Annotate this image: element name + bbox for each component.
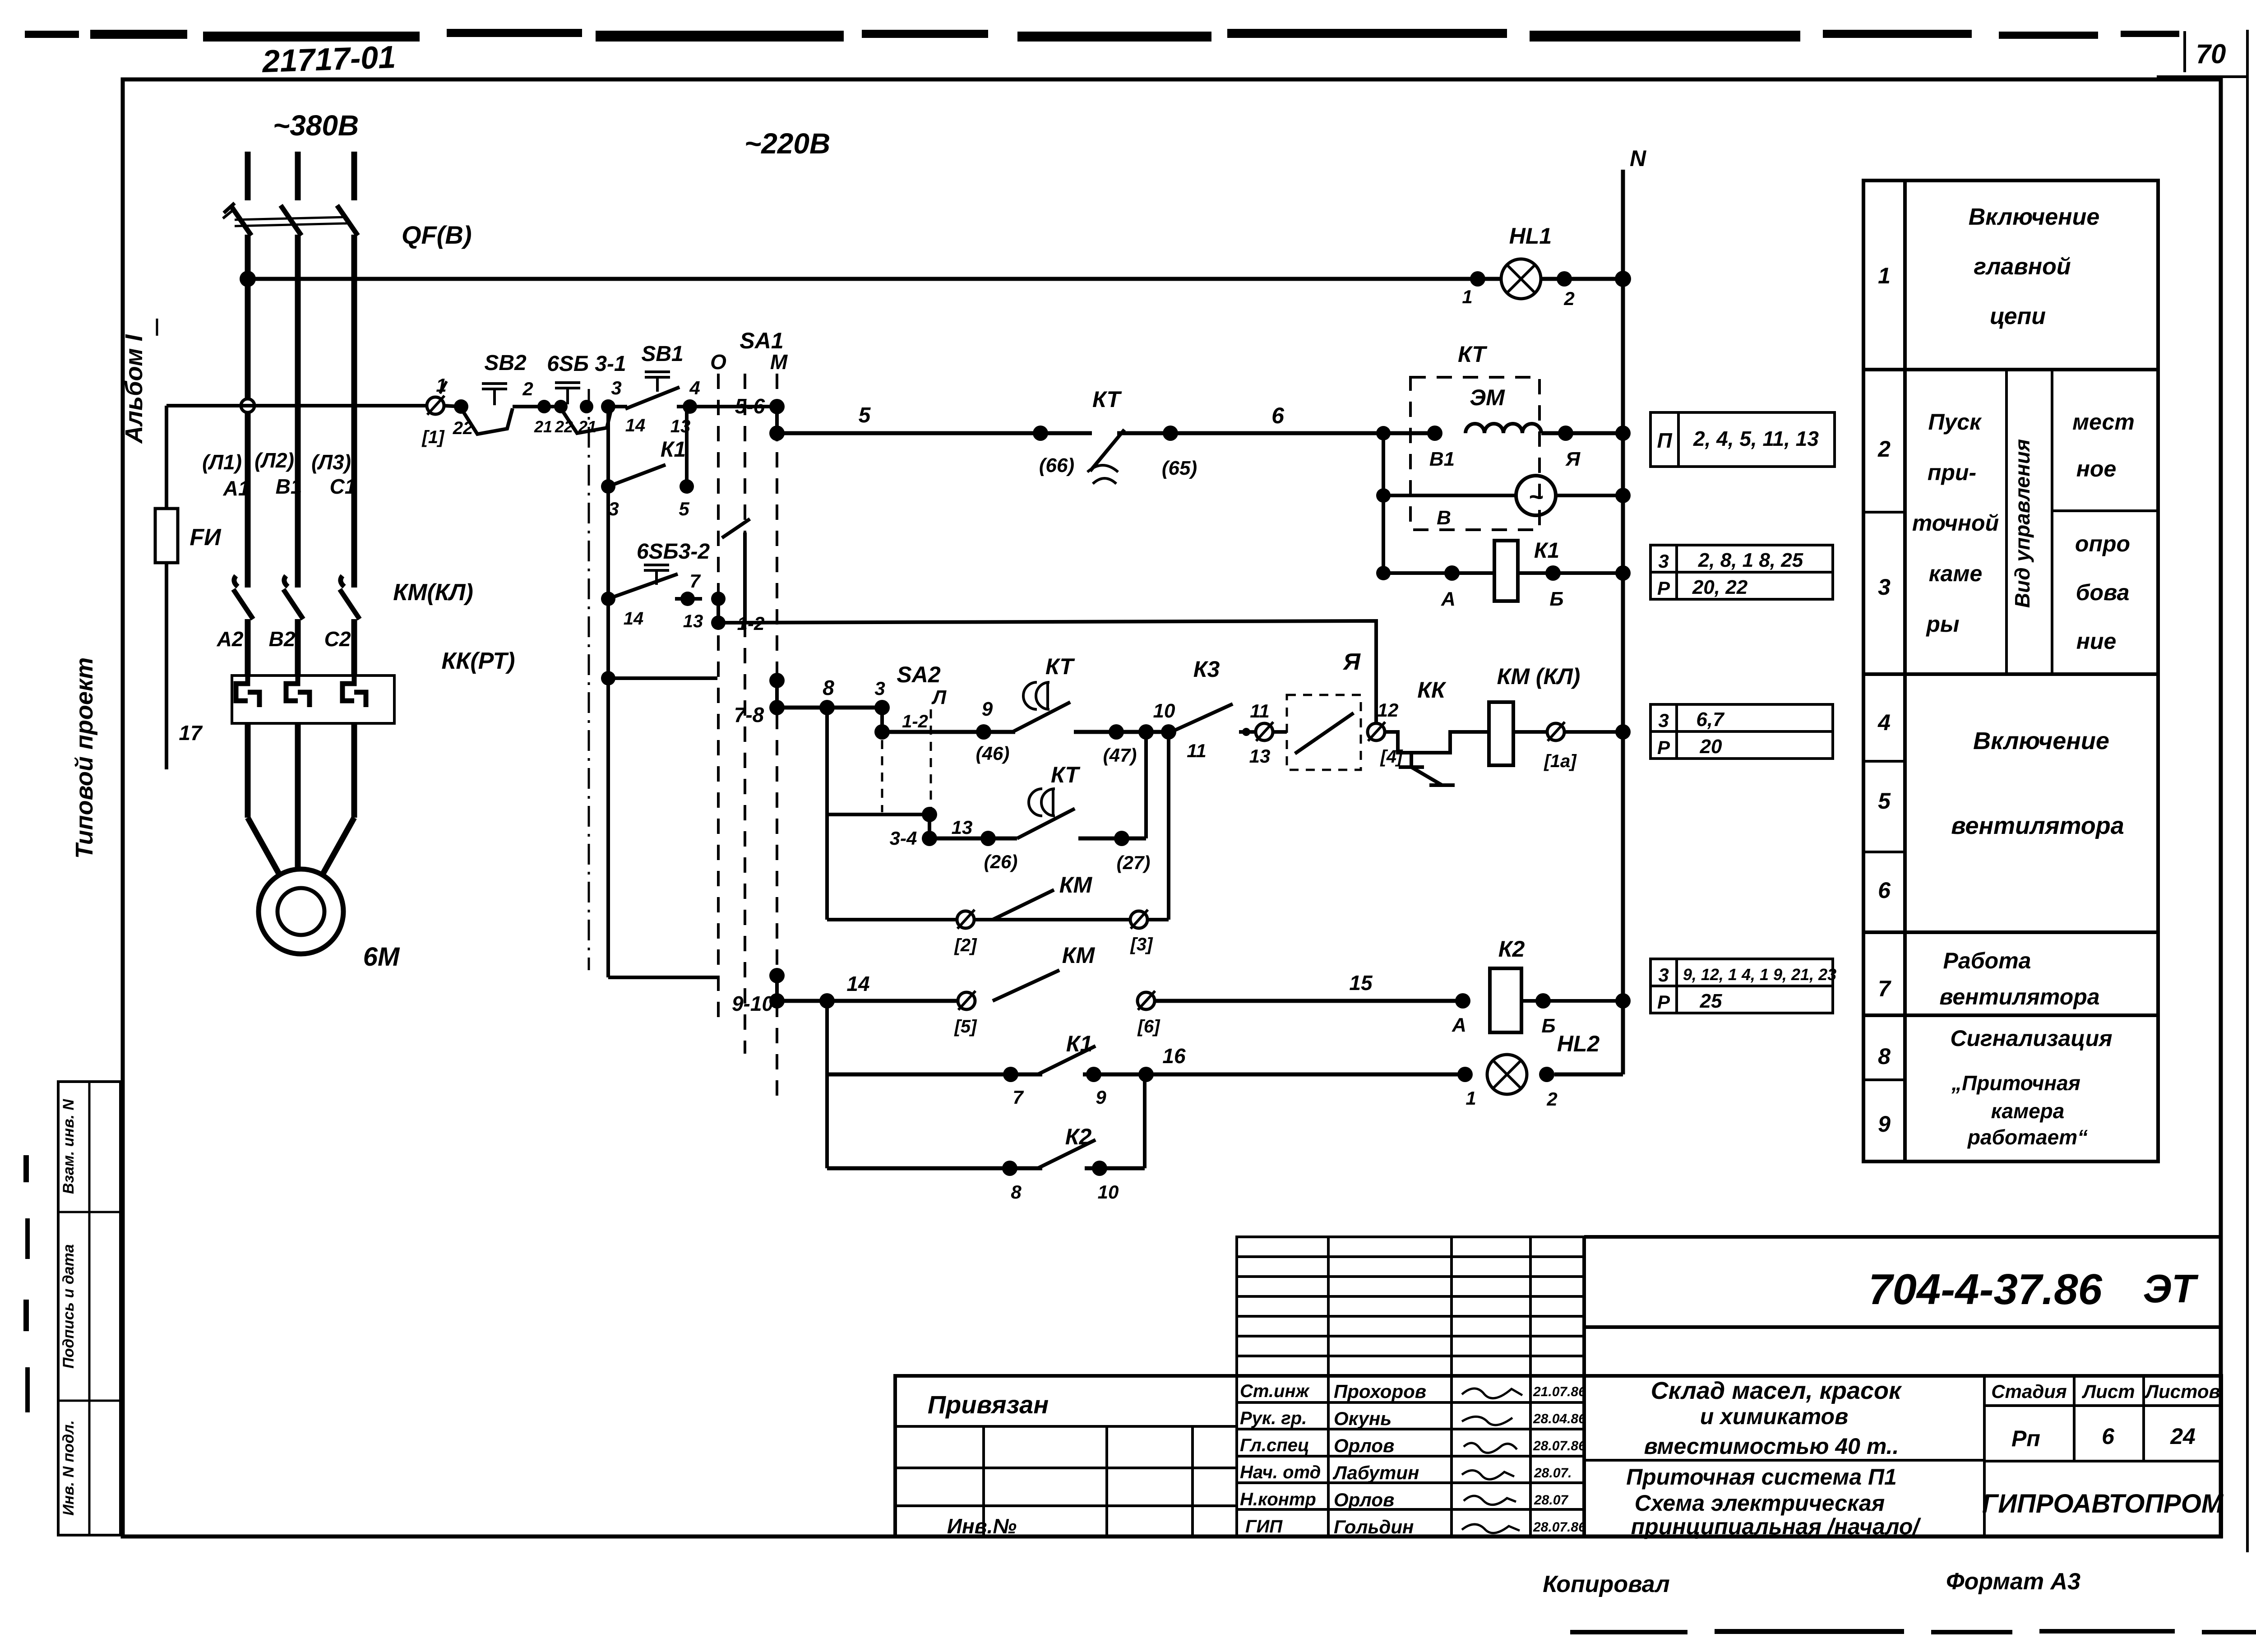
svg-text:9: 9	[1096, 1087, 1106, 1108]
node B1	[1427, 426, 1442, 441]
wire phase A down	[245, 235, 251, 588]
svg-text:Схема электрическая: Схема электрическая	[1635, 1490, 1885, 1516]
svg-text:6: 6	[2102, 1424, 2115, 1449]
svg-text:Включение: Включение	[1969, 204, 2100, 230]
svg-text:HL1: HL1	[1509, 223, 1552, 249]
svg-text:28.07: 28.07	[1534, 1493, 1568, 1508]
svg-text:Подпись и дата: Подпись и дата	[60, 1244, 77, 1369]
svg-text:КТ: КТ	[1458, 342, 1488, 367]
relay contact K1 (signal)	[1003, 1067, 1018, 1082]
svg-text:Стадия: Стадия	[1991, 1381, 2066, 1402]
signature dates	[1533, 1384, 1586, 1535]
svg-text:704-4-37.86: 704-4-37.86	[1868, 1265, 2102, 1314]
svg-text:К3: К3	[1193, 657, 1220, 682]
wire to terminal 11/13	[1239, 730, 1287, 734]
svg-text:~: ~	[1529, 482, 1544, 511]
svg-text:Склад масел, красок: Склад масел, красок	[1651, 1377, 1902, 1404]
SA1 position line M	[776, 374, 778, 1097]
circuit breaker QF(B)	[223, 203, 472, 249]
svg-text:ЭМ: ЭМ	[1470, 385, 1505, 410]
svg-text:А: А	[1441, 588, 1456, 610]
svg-text:1-2: 1-2	[902, 712, 928, 731]
svg-text:Пуск: Пуск	[1928, 409, 1983, 435]
svg-text:точной: точной	[1912, 510, 1999, 536]
svg-text:Формат А3: Формат А3	[1946, 1569, 2080, 1595]
svg-text:9-10: 9-10	[732, 992, 773, 1015]
wire rung to node 9	[882, 730, 1015, 734]
node 9 (46)	[976, 724, 991, 740]
svg-text:Орлов: Орлов	[1334, 1489, 1394, 1510]
wire 1-2 line to node 12	[718, 621, 1376, 732]
svg-text:6SБ 3-1: 6SБ 3-1	[547, 352, 626, 376]
wire phase B lower	[295, 723, 301, 818]
svg-text:[5]: [5]	[954, 1017, 978, 1037]
svg-text:вентилятора: вентилятора	[1951, 812, 2124, 839]
svg-text:О: О	[710, 350, 726, 374]
svg-text:Альбом I: Альбом I	[120, 334, 148, 444]
wire top control bus 220V to N	[248, 277, 1623, 281]
svg-text:(47): (47)	[1103, 745, 1137, 766]
terminal [6]	[1137, 992, 1155, 1009]
svg-text:Орлов: Орлов	[1334, 1435, 1394, 1456]
svg-text:опро: опро	[2075, 531, 2130, 556]
svg-text:21: 21	[578, 417, 596, 436]
svg-text:(66): (66)	[1039, 454, 1074, 477]
svg-text:Копировал: Копировал	[1543, 1571, 1669, 1597]
svg-text:SB1: SB1	[641, 342, 683, 366]
svg-text:Прохоров: Прохоров	[1334, 1381, 1426, 1402]
svg-text:Окунь: Окунь	[1334, 1408, 1392, 1429]
svg-text:КК(РТ): КК(РТ)	[441, 648, 515, 674]
svg-text:каме: каме	[1929, 561, 1983, 586]
svg-text:Вид управления: Вид управления	[2011, 439, 2034, 608]
svg-text:2: 2	[522, 378, 533, 399]
svg-text:7-8: 7-8	[734, 703, 764, 727]
svg-text:12: 12	[1378, 699, 1399, 721]
wire SB2 to 6SB3-1	[513, 405, 561, 408]
relay coil K2	[1455, 993, 1470, 1009]
svg-text:Гольдин: Гольдин	[1334, 1516, 1414, 1537]
svg-text:Я: Я	[1342, 649, 1361, 675]
function table frame	[1863, 180, 2158, 1161]
wire down to O column bottom	[606, 678, 610, 977]
svg-text:ние: ние	[2076, 629, 2117, 654]
svg-text:FИ: FИ	[190, 524, 222, 551]
svg-text:10: 10	[1153, 700, 1175, 722]
svg-text:[2]: [2]	[954, 935, 978, 955]
svg-text:21: 21	[534, 417, 552, 436]
svg-text:6,7: 6,7	[1696, 708, 1725, 731]
svg-text:КМ(КЛ): КМ(КЛ)	[393, 579, 473, 606]
wire 27 up to node 10	[1144, 732, 1148, 838]
wire rung2 left segment	[166, 404, 435, 407]
svg-text:Инв. N подл.: Инв. N подл.	[60, 1420, 77, 1516]
svg-text:С2: С2	[324, 627, 351, 651]
svg-text:21.07.86: 21.07.86	[1533, 1384, 1586, 1399]
svg-text:14: 14	[624, 609, 644, 629]
svg-text:„Приточная: „Приточная	[1951, 1071, 2080, 1095]
SA2 contact 3-4	[922, 807, 937, 822]
wire 6	[1170, 431, 1435, 435]
svg-text:6: 6	[1271, 403, 1285, 428]
svg-text:3: 3	[1878, 574, 1891, 600]
svg-text:SA1: SA1	[740, 328, 783, 353]
svg-text:3: 3	[1658, 964, 1669, 986]
svg-text:вместимостью 40 т..: вместимостью 40 т..	[1644, 1434, 1899, 1459]
terminal [5]	[958, 992, 975, 1009]
node 4	[683, 399, 697, 414]
svg-text:(Л1): (Л1)	[202, 450, 242, 474]
svg-text:16: 16	[1162, 1044, 1186, 1068]
svg-text:3: 3	[1658, 710, 1669, 731]
svg-text:цепи: цепи	[1990, 303, 2046, 329]
terminal table P	[1650, 412, 1835, 467]
svg-text:28.04.86: 28.04.86	[1533, 1411, 1586, 1426]
svg-text:2: 2	[1546, 1088, 1557, 1110]
svg-text:принципиальная /начало/: принципиальная /начало/	[1631, 1514, 1922, 1539]
motor 6M	[259, 869, 343, 954]
wire phase A stub	[245, 152, 251, 200]
svg-text:Рук. гр.: Рук. гр.	[1240, 1408, 1307, 1428]
svg-text:5: 5	[859, 403, 871, 427]
svg-text:1: 1	[1465, 1087, 1476, 1109]
svg-text:вентилятора: вентилятора	[1939, 984, 2099, 1009]
svg-text:Л: Л	[931, 686, 947, 708]
signature names	[1332, 1381, 1426, 1537]
svg-text:14: 14	[625, 416, 646, 435]
wire 5	[777, 431, 1040, 435]
left bottom stamp box	[58, 1082, 120, 1535]
outer right border	[2246, 30, 2249, 1552]
svg-text:В1: В1	[276, 475, 302, 498]
signature squiggles	[1462, 1388, 1522, 1533]
svg-text:Лист: Лист	[2081, 1381, 2135, 1402]
wire 7-8 rung to node 8	[777, 706, 882, 710]
relay contact K2 (signal) rung	[827, 1166, 1042, 1171]
svg-text:13: 13	[952, 817, 973, 838]
SA1 contact 9-10	[769, 968, 785, 983]
svg-text:ЭТ: ЭТ	[2143, 1266, 2198, 1311]
wire 16 up	[1143, 1074, 1146, 1168]
scan artifact left edge specks	[23, 1155, 30, 1412]
svg-text:КТ: КТ	[1092, 387, 1122, 412]
svg-text:Лабутин: Лабутин	[1332, 1462, 1419, 1483]
svg-text:5: 5	[1878, 788, 1891, 814]
svg-text:и химикатов: и химикатов	[1700, 1404, 1849, 1429]
svg-text:[1]: [1]	[421, 427, 445, 447]
svg-text:А2: А2	[217, 627, 244, 651]
node Ya	[1558, 426, 1573, 441]
node bus tap on phase A	[240, 271, 256, 287]
svg-text:камера: камера	[1991, 1099, 2065, 1123]
svg-text:8: 8	[1011, 1181, 1022, 1203]
node (66)	[1033, 426, 1048, 441]
svg-text:9, 12, 1 4, 1 9, 21, 23: 9, 12, 1 4, 1 9, 21, 23	[1683, 965, 1836, 984]
svg-text:Типовой проект: Типовой проект	[71, 657, 98, 859]
svg-text:ры: ры	[1925, 611, 1959, 637]
wire phase A lower	[245, 723, 251, 818]
terminal 1 [1] circle-slash	[427, 397, 444, 414]
svg-text:~380В: ~380В	[273, 109, 359, 142]
svg-text:П: П	[1657, 429, 1672, 452]
svg-text:4: 4	[689, 377, 700, 398]
svg-text:(65): (65)	[1162, 457, 1197, 479]
svg-text:QF(В): QF(В)	[402, 221, 472, 249]
wire KM interlock rung [2][3]	[827, 918, 1139, 921]
svg-text:70: 70	[2196, 39, 2226, 69]
svg-text:[4]: [4]	[1380, 747, 1404, 767]
svg-text:К1: К1	[661, 438, 686, 462]
svg-text:КМ: КМ	[1059, 872, 1093, 898]
svg-text:5-6: 5-6	[735, 394, 765, 418]
svg-text:(Л3): (Л3)	[311, 450, 351, 474]
wire down to K1 rung	[825, 1001, 829, 1168]
svg-text:М: М	[770, 350, 788, 374]
dash-dot panel boundary	[588, 389, 590, 970]
svg-text:[3]: [3]	[1130, 935, 1154, 954]
svg-text:14: 14	[846, 972, 869, 995]
svg-text:КМ (КЛ): КМ (КЛ)	[1497, 664, 1581, 689]
svg-text:HL2: HL2	[1557, 1031, 1600, 1056]
svg-text:25: 25	[1700, 990, 1722, 1012]
contactor KM(KL) main contacts	[233, 576, 360, 619]
svg-text:13: 13	[683, 611, 703, 631]
svg-text:28.07.86: 28.07.86	[1533, 1520, 1586, 1535]
scan artifact bottom right dashes	[1570, 1629, 2256, 1634]
svg-text:К1: К1	[1534, 539, 1559, 563]
svg-text:13: 13	[1249, 745, 1271, 767]
svg-text:[6]: [6]	[1137, 1017, 1161, 1037]
svg-text:КК: КК	[1417, 677, 1447, 703]
svg-text:2, 4, 5, 11, 13: 2, 4, 5, 11, 13	[1693, 427, 1819, 450]
svg-text:главной: главной	[1974, 254, 2071, 280]
svg-text:6: 6	[1878, 878, 1891, 903]
svg-text:9: 9	[982, 698, 993, 720]
wire junction to O column (middle feed)	[601, 671, 615, 685]
SA1 contact 5-6	[769, 399, 785, 414]
svg-text:Гл.спец: Гл.спец	[1240, 1435, 1309, 1455]
svg-text:ное: ное	[2076, 456, 2117, 481]
wire 9-10 rung 14	[777, 999, 957, 1003]
svg-text:2, 8, 1 8, 25: 2, 8, 1 8, 25	[1698, 549, 1803, 571]
page number box tick	[2183, 31, 2186, 72]
signature roles	[1240, 1381, 1321, 1536]
wire phase C lower	[351, 723, 357, 818]
wire phase C stub	[351, 152, 357, 200]
svg-text:7: 7	[1012, 1087, 1024, 1108]
wire to N	[1541, 431, 1623, 435]
svg-text:28.07.: 28.07.	[1534, 1466, 1572, 1481]
svg-text:Ст.инж: Ст.инж	[1240, 1381, 1310, 1401]
wire phase C down	[351, 235, 357, 588]
svg-text:(27): (27)	[1117, 852, 1151, 873]
motor-drive lamp of KT (circle with ~)	[1376, 488, 1391, 503]
terminal circle phase A / control tap	[241, 399, 254, 412]
wire node4 to SA1 M column	[677, 405, 777, 408]
SA2 feed wire to 3-4	[825, 708, 829, 920]
svg-text:7: 7	[689, 570, 701, 592]
svg-text:6М: 6М	[363, 942, 400, 972]
wire to SB1	[608, 405, 627, 408]
svg-text:В2: В2	[269, 627, 296, 651]
svg-text:Р: Р	[1657, 737, 1670, 758]
svg-text:3: 3	[874, 678, 885, 699]
SA1 position line O	[717, 374, 720, 1018]
svg-text:7: 7	[1878, 976, 1891, 1001]
svg-text:Я: Я	[1565, 448, 1581, 470]
svg-text:(46): (46)	[976, 743, 1010, 764]
wire K1/16 rung	[827, 1073, 1042, 1077]
SA2 mechanical link dashed	[881, 740, 883, 812]
svg-text:Инв.№: Инв.№	[947, 1514, 1017, 1538]
svg-text:3: 3	[1658, 551, 1669, 572]
fuse FI	[155, 509, 178, 563]
svg-text:Приточная система П1: Приточная система П1	[1626, 1464, 1897, 1490]
wire phase A mid	[245, 619, 251, 676]
svg-text:бова: бова	[2076, 580, 2130, 605]
svg-text:Нач. отд: Нач. отд	[1240, 1462, 1321, 1482]
svg-text:при-: при-	[1928, 460, 1976, 485]
svg-text:ГИП: ГИП	[1245, 1517, 1283, 1536]
svg-text:9: 9	[1878, 1111, 1891, 1137]
svg-text:(Л2): (Л2)	[254, 449, 294, 472]
svg-text:Включение: Включение	[1973, 727, 2109, 754]
svg-text:Р: Р	[1657, 991, 1670, 1013]
wire down from node 6	[1382, 433, 1385, 573]
svg-text:Рп: Рп	[2011, 1426, 2040, 1451]
svg-text:В: В	[1437, 507, 1451, 529]
svg-text:N: N	[1630, 146, 1646, 171]
svg-text:Взам. инв. N: Взам. инв. N	[60, 1098, 77, 1194]
wire 15	[1155, 999, 1463, 1003]
thermal relay KK(RT) box	[232, 676, 394, 723]
svg-text:21717-01: 21717-01	[261, 39, 396, 79]
node 2 / 21 22	[537, 400, 551, 413]
title block main frame	[895, 1237, 2221, 1536]
svg-text:А1: А1	[223, 477, 250, 500]
svg-text:6SБ3-2: 6SБ3-2	[637, 540, 710, 564]
svg-text:КТ: КТ	[1045, 654, 1075, 679]
relay contact K1 self-hold branch	[606, 407, 610, 486]
svg-text:Б: Б	[1549, 588, 1563, 610]
wire phase B mid	[295, 619, 301, 676]
svg-text:~220В: ~220В	[744, 127, 830, 160]
svg-text:17: 17	[179, 721, 203, 745]
scan artifact top band	[25, 29, 2179, 42]
svg-text:SA2: SA2	[897, 662, 940, 687]
node 12 [4]	[1368, 723, 1385, 740]
relay coil K1	[1376, 566, 1391, 580]
svg-text:24: 24	[2170, 1424, 2196, 1449]
svg-text:(26): (26)	[984, 851, 1018, 872]
svg-text:3: 3	[611, 377, 621, 398]
node (65)	[1163, 426, 1178, 441]
svg-text:К2: К2	[1498, 936, 1525, 962]
svg-text:10: 10	[1098, 1181, 1119, 1203]
svg-text:Листов: Листов	[2144, 1381, 2220, 1402]
svg-text:28.07.86: 28.07.86	[1533, 1439, 1586, 1453]
wire phase C mid	[351, 619, 357, 676]
wire phase B down	[295, 235, 301, 588]
svg-text:КМ: КМ	[1062, 943, 1096, 968]
SA1 contact 1-2	[711, 592, 726, 606]
thermal relay heater elements	[236, 676, 366, 707]
svg-text:1: 1	[1462, 286, 1472, 307]
svg-text:4: 4	[1877, 710, 1891, 735]
node 8	[819, 700, 835, 715]
svg-text:С1: С1	[330, 475, 356, 498]
svg-text:20: 20	[1700, 736, 1722, 758]
svg-text:2: 2	[1563, 288, 1574, 309]
fuse branch wire	[165, 406, 168, 769]
svg-text:КТ: КТ	[1051, 762, 1081, 787]
svg-text:работает“: работает“	[1967, 1125, 2088, 1149]
svg-text:Привязан: Привязан	[928, 1390, 1049, 1419]
svg-text:15: 15	[1349, 971, 1373, 995]
svg-text:1: 1	[1878, 263, 1891, 288]
terminal table 3/P second	[1650, 704, 1833, 759]
svg-text:Б: Б	[1541, 1015, 1555, 1037]
terminal table 3/P third	[1650, 959, 1833, 1013]
signature columns	[1237, 1376, 1584, 1536]
svg-text:Работа: Работа	[1943, 948, 2031, 973]
node SB2 left	[444, 406, 461, 407]
stadia list listov columns	[1984, 1376, 2221, 1536]
svg-text:1: 1	[436, 375, 446, 396]
svg-text:11: 11	[1187, 740, 1207, 761]
svg-text:А: А	[1452, 1014, 1466, 1036]
svg-text:20, 22: 20, 22	[1692, 576, 1748, 598]
privyazan block	[895, 1376, 1237, 1536]
svg-text:8: 8	[823, 676, 834, 699]
svg-text:[1а]: [1а]	[1543, 751, 1577, 771]
SA1 contact 7-8	[769, 673, 785, 688]
svg-text:ГИПРОАВТОПРОМ: ГИПРОАВТОПРОМ	[1982, 1489, 2224, 1518]
svg-text:8: 8	[1878, 1044, 1891, 1069]
svg-text:Сигнализация: Сигнализация	[1950, 1026, 2112, 1051]
svg-text:3-4: 3-4	[890, 828, 917, 849]
wire 26-27 rung	[929, 837, 1017, 841]
svg-text:Р: Р	[1657, 578, 1670, 599]
SA1 selector blade tick	[722, 519, 750, 538]
terminal table 3/P first	[1650, 545, 1833, 599]
svg-text:11: 11	[1250, 700, 1270, 722]
wires converging to motor	[248, 818, 281, 877]
svg-text:5: 5	[679, 498, 689, 519]
svg-text:SB2: SB2	[484, 351, 527, 375]
node 21 / 3	[580, 400, 593, 413]
svg-text:Н.контр: Н.контр	[1240, 1490, 1316, 1509]
SA1 position line middle	[744, 374, 746, 532]
title block revision grid	[1237, 1237, 1584, 1376]
pushbutton 6SB3-2 branch	[606, 486, 610, 678]
svg-text:2: 2	[1877, 436, 1891, 462]
svg-text:В1: В1	[1429, 448, 1455, 470]
nodes 10 (47)	[1109, 724, 1124, 740]
wire phase B stub	[295, 152, 301, 200]
svg-text:мест: мест	[2072, 409, 2135, 435]
